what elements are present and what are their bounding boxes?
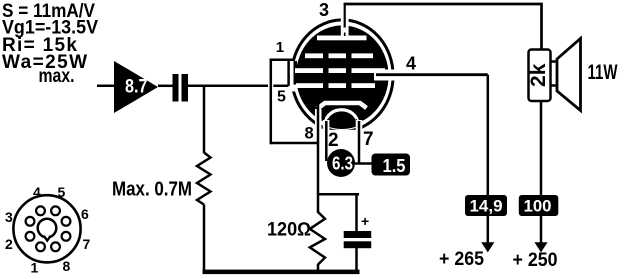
svg-text:120Ω: 120Ω (267, 219, 311, 240)
socket center spigot circle (38, 219, 57, 238)
wire 2k box to supply arrow (540, 101, 543, 244)
svg-text:6.3: 6.3 (332, 154, 353, 174)
wire capacitor to grid (pin 5), with crossover break (188, 85, 297, 88)
arrowhead +265 (481, 242, 494, 252)
tube interior black disc (296, 25, 389, 126)
svg-text:2k: 2k (527, 63, 550, 87)
pin 3 lead (344, 4, 346, 28)
coupling capacitor (173, 74, 189, 102)
white notch at grid pin entries (left) (289, 61, 297, 92)
white channel heater leg pin 7 (356, 120, 363, 136)
value box 1.5 (372, 154, 411, 177)
socket pin 1 hole (36, 242, 45, 251)
wire capacitor bottom lead (355, 248, 358, 270)
socket key notch (44, 236, 51, 241)
arrowhead +250 (534, 242, 547, 252)
wire pin 1 (g3) entry (270, 59, 295, 62)
wire screen drop to supply arrow (487, 75, 490, 244)
svg-text:100: 100 (524, 197, 552, 216)
heater leg pin 2 (325, 121, 328, 161)
socket pin 5 hole (51, 206, 60, 215)
svg-text:5: 5 (58, 184, 66, 200)
svg-text:1.5: 1.5 (383, 155, 406, 176)
wire resistor to ground bus (203, 205, 206, 271)
output transformer box 2k (527, 50, 551, 102)
svg-text:5: 5 (277, 89, 286, 106)
wire g3 to cathode tie (vertical, crosses input) (270, 59, 273, 145)
svg-text:2: 2 (328, 130, 339, 151)
socket pin 3 hole (26, 217, 35, 226)
socket pin 7 hole (62, 232, 71, 241)
disc flat left edge at notch (294, 61, 298, 85)
grid g1 row dashes (296, 83, 375, 88)
pin 3 lead tick at anode (344, 33, 346, 37)
anode plate bar (317, 36, 367, 41)
svg-text:7: 7 (83, 236, 91, 252)
tube envelope outer ring (292, 20, 394, 132)
bypass capacitor plates (344, 231, 372, 248)
svg-text:7: 7 (363, 129, 374, 150)
svg-text:3: 3 (5, 209, 13, 225)
svg-text:4: 4 (406, 54, 416, 74)
wire cathode node down to 120 ohm resistor (317, 143, 320, 213)
wire triangle to capacitor (158, 85, 173, 88)
socket pin 8 hole (51, 242, 60, 251)
svg-text:8.7: 8.7 (125, 77, 148, 98)
svg-text:Max. 0.7M: Max. 0.7M (112, 179, 192, 201)
value box 100 (519, 195, 559, 216)
wire 120 ohm to ground bus (317, 264, 320, 270)
resistor 120 ohm zigzag (310, 212, 325, 265)
svg-text:8: 8 (63, 258, 71, 274)
svg-text:2: 2 (5, 236, 13, 252)
svg-text:+ 250: + 250 (513, 250, 558, 271)
wire tie pin1 to pin5 (vertical) (287, 60, 290, 86)
white channel pin 3 entry (top) (341, 15, 349, 36)
socket pin 2 hole (26, 232, 35, 241)
socket base circle (13, 195, 80, 262)
cathode lead pin 8 (317, 104, 320, 143)
svg-text:11W: 11W (588, 61, 618, 84)
heater leg pin 7 (358, 121, 361, 164)
svg-text:1: 1 (276, 39, 284, 56)
svg-text:1: 1 (31, 260, 39, 276)
svg-text:6: 6 (81, 206, 89, 222)
black band below heater dome (disc bottom edge) (326, 122, 358, 125)
cathode bar (318, 103, 367, 109)
svg-text:8: 8 (305, 125, 314, 143)
svg-text:+ 265: + 265 (439, 249, 484, 270)
wire cathode tie horizontal (271, 142, 318, 145)
wire capacitor top lead (355, 194, 358, 232)
white channel pin 4 exit (right) (374, 70, 402, 81)
svg-text:3: 3 (319, 0, 329, 20)
wire heater circle to 1.5 box (355, 162, 372, 165)
svg-text:+: + (361, 213, 369, 229)
svg-text:4: 4 (33, 184, 41, 200)
svg-text:max.: max. (39, 66, 75, 87)
resistor Max. 0.7M zigzag (197, 153, 211, 205)
speaker horn (557, 39, 581, 111)
value box 14,9 (465, 195, 507, 216)
heater dome white arc (325, 110, 357, 123)
white cut of ring between heater legs (328, 130, 357, 138)
wire grid junction down to resistor (203, 86, 206, 153)
white channel cathode lead (bottom left) (315, 109, 322, 128)
grid g3 row dashes (305, 53, 373, 58)
grid g2 row dashes (295, 68, 385, 73)
driver stage triangle 8.7 (114, 61, 158, 113)
svg-text:14,9: 14,9 (470, 197, 503, 216)
wire tee to bypass capacitor (318, 193, 359, 196)
socket pin 6 hole (62, 217, 71, 226)
white channel heater leg pin 2 (323, 120, 330, 136)
heater voltage circle 6.3 (327, 149, 355, 177)
speaker coupling stubs (551, 62, 558, 86)
wire input (97, 85, 114, 88)
wire pin 4 (g2) to right (376, 73, 488, 76)
socket pin 4 hole (36, 206, 45, 215)
ground bus (203, 270, 360, 275)
wire anode top run to output (344, 4, 542, 50)
